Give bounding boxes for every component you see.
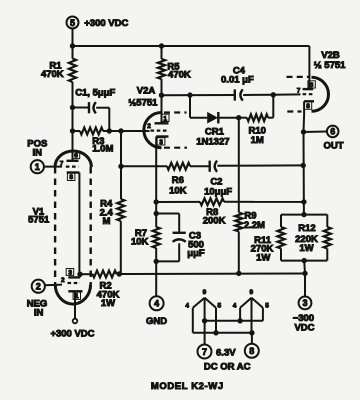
svg-text:IN: IN xyxy=(34,307,44,318)
svg-text:+300 VDC: +300 VDC xyxy=(50,328,94,339)
svg-text:1M: 1M xyxy=(251,135,264,146)
svg-text:VDC: VDC xyxy=(294,323,314,334)
svg-text:½5751: ½5751 xyxy=(128,98,158,109)
svg-text:+300 VDC: +300 VDC xyxy=(84,18,128,29)
svg-text:6: 6 xyxy=(330,127,335,137)
svg-text:7: 7 xyxy=(297,88,301,95)
svg-text:470K: 470K xyxy=(41,69,64,80)
svg-text:8: 8 xyxy=(69,174,73,181)
svg-text:2.2M: 2.2M xyxy=(244,220,265,231)
svg-text:½ 5751: ½ 5751 xyxy=(314,60,346,71)
svg-text:4: 4 xyxy=(233,303,237,310)
svg-text:2: 2 xyxy=(61,277,65,284)
svg-text:C2: C2 xyxy=(210,176,222,187)
svg-text:6: 6 xyxy=(310,82,314,89)
svg-text:7: 7 xyxy=(60,161,64,168)
svg-text:2: 2 xyxy=(147,123,151,130)
svg-text:3: 3 xyxy=(159,139,163,146)
svg-text:5: 5 xyxy=(265,303,269,310)
svg-text:8: 8 xyxy=(249,346,254,356)
svg-text:GND: GND xyxy=(146,316,167,327)
svg-text:1: 1 xyxy=(35,162,40,172)
svg-text:R6: R6 xyxy=(172,175,184,186)
svg-text:μμF: μμF xyxy=(187,248,205,259)
svg-text:MODEL K2-WJ: MODEL K2-WJ xyxy=(151,381,224,392)
svg-text:M: M xyxy=(103,216,111,227)
svg-text:1: 1 xyxy=(75,293,79,300)
svg-text:10μμF: 10μμF xyxy=(204,187,232,198)
svg-text:0.01 μF: 0.01 μF xyxy=(221,75,254,86)
svg-text:C1, 5μμF: C1, 5μμF xyxy=(75,88,115,99)
svg-text:R12: R12 xyxy=(298,223,315,234)
svg-text:1N1327: 1N1327 xyxy=(196,136,229,147)
svg-text:V2A: V2A xyxy=(137,85,156,96)
svg-text:8: 8 xyxy=(306,103,310,110)
svg-text:200K: 200K xyxy=(203,215,226,226)
svg-text:1W: 1W xyxy=(299,243,313,254)
svg-text:5751: 5751 xyxy=(28,214,50,225)
svg-text:3: 3 xyxy=(302,298,307,308)
svg-text:7: 7 xyxy=(202,347,207,357)
svg-text:6: 6 xyxy=(74,153,78,160)
svg-text:470K: 470K xyxy=(168,69,191,80)
svg-text:1W: 1W xyxy=(256,252,270,263)
svg-text:4: 4 xyxy=(185,303,189,310)
svg-text:1W: 1W xyxy=(101,298,115,309)
svg-text:9: 9 xyxy=(203,289,207,296)
svg-text:DC OR AC: DC OR AC xyxy=(204,361,251,372)
svg-text:IN: IN xyxy=(32,147,42,158)
svg-text:OUT: OUT xyxy=(323,141,343,152)
svg-text:3: 3 xyxy=(68,270,72,277)
svg-text:1: 1 xyxy=(163,115,167,122)
svg-text:10K: 10K xyxy=(131,237,149,248)
svg-text:1.0M: 1.0M xyxy=(92,144,113,155)
svg-text:10K: 10K xyxy=(169,185,187,196)
svg-text:5: 5 xyxy=(217,303,221,310)
svg-text:4: 4 xyxy=(154,299,159,309)
svg-text:9: 9 xyxy=(249,289,253,296)
svg-text:6.3V: 6.3V xyxy=(216,347,236,358)
svg-text:5: 5 xyxy=(70,18,75,28)
svg-text:2: 2 xyxy=(36,282,41,292)
